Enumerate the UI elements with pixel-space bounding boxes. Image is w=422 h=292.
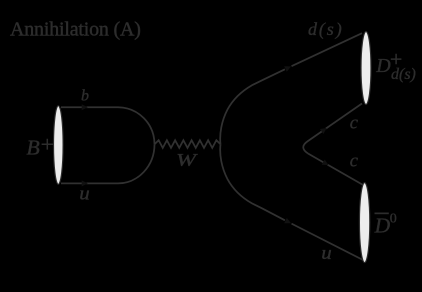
- wire d(s)-quark top fan: [220, 33, 362, 144]
- faint arrowhead on upper c line: [320, 126, 329, 134]
- svg-text:D: D: [375, 55, 391, 77]
- svg-text:D: D: [374, 213, 391, 237]
- svg-text:u: u: [79, 184, 90, 205]
- wire c-quark upper: [303, 104, 362, 154]
- blob D0bar meson: [359, 183, 369, 263]
- blob D+ meson: [361, 32, 371, 105]
- faint arrowhead on u line: [82, 180, 88, 186]
- svg-text:b: b: [81, 88, 89, 105]
- wire u-quark bottom of B loop: [61, 144, 155, 183]
- faint arrowhead on b line: [82, 104, 88, 110]
- wire b-quark top of B loop: [61, 107, 155, 144]
- svg-text:u: u: [321, 243, 332, 264]
- svg-text:c: c: [350, 114, 359, 134]
- svg-text:c: c: [350, 152, 359, 172]
- blob B+ meson: [54, 106, 64, 185]
- wire c-quark lower: [308, 154, 364, 186]
- svg-text:B: B: [26, 136, 40, 160]
- svg-text:d(s): d(s): [391, 66, 416, 83]
- faint arrowhead on u fan line: [284, 218, 292, 226]
- W boson zigzag propagator: [155, 140, 221, 148]
- faint arrowhead on d(s) fan line: [284, 64, 292, 72]
- wire u-quark bottom fan: [220, 144, 364, 260]
- svg-text:Annihilation (A): Annihilation (A): [10, 18, 141, 40]
- svg-text:d(s): d(s): [308, 19, 344, 40]
- svg-text:W: W: [176, 150, 198, 170]
- faint arrowhead on lower c line: [322, 160, 330, 168]
- svg-text:0: 0: [390, 212, 397, 227]
